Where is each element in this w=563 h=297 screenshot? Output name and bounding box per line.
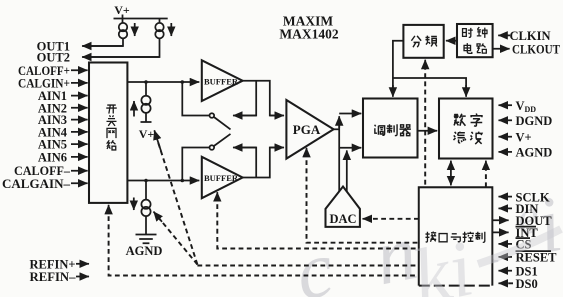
buffer U2 output wiring (243, 148, 277, 178)
clock box 时钟电路 (457, 24, 493, 57)
wire to switch top (182, 82, 209, 116)
svg-text:CLKOUT: CLKOUT (512, 43, 561, 57)
pin AIN3 (71, 119, 88, 121)
svg-text:REFIN–: REFIN– (30, 270, 77, 284)
svg-text:AIN6: AIN6 (38, 150, 67, 164)
pin VDD (499, 104, 513, 106)
svg-text:V+: V+ (139, 127, 155, 141)
wire clock to divider (446, 40, 457, 42)
pin AIN6 (71, 156, 88, 158)
dashed control rail mid (197, 265, 418, 267)
pin AIN4 (71, 131, 88, 133)
wire stub to bias current source (145, 82, 147, 96)
dashed clock feedback up into divider (424, 65, 426, 187)
svg-text:AGND: AGND (126, 244, 163, 258)
wire to switch bottom (182, 148, 209, 181)
current source I3 (V+ bias) (141, 96, 150, 113)
node A junction top wire / bias source (144, 80, 148, 84)
svg-text:V+: V+ (516, 130, 532, 144)
interface pins (492, 190, 557, 291)
svg-text:DAC: DAC (329, 212, 356, 226)
pin CS (499, 243, 513, 245)
wire to ground (145, 216, 147, 234)
pin AIN1 (71, 95, 88, 97)
current source I2 (155, 23, 163, 39)
current source I4 (AGND sink) (141, 200, 150, 217)
V+ rail wire (114, 15, 168, 23)
current source I1 (burnout detect) (119, 23, 127, 39)
node D junction bottom wire / chopper branch (181, 179, 185, 183)
switch arm top (214, 117, 231, 129)
pin RESET (499, 256, 513, 258)
svg-text:CALGAIN–: CALGAIN– (2, 177, 71, 191)
wire modulator to filter (418, 130, 438, 132)
label 调制器 (375, 125, 385, 135)
svg-text:BUFFER: BUFFER (204, 174, 239, 183)
pin CLKIN (498, 34, 510, 36)
pin V+ (499, 136, 513, 138)
label 开关网络 vertical (106, 105, 117, 114)
node B junction top wire / chopper branch (181, 80, 185, 84)
pin CALOFF+ (71, 69, 88, 71)
arrow up beside source (133, 101, 135, 117)
watermark cnki (289, 180, 563, 297)
divider to modulator wire (393, 41, 404, 95)
svg-text:AGND: AGND (516, 146, 553, 160)
wire box to bottom buffer (127, 180, 199, 182)
dashed control to DAC (369, 218, 419, 220)
wire box to top buffer (127, 81, 199, 83)
pin CALGIN+ (71, 82, 88, 84)
svg-text:MAX1402: MAX1402 (279, 27, 338, 42)
buffer U1 output wiring (243, 81, 277, 116)
dashed control rail from buffer U2 (217, 196, 418, 249)
branch to filter top (393, 78, 466, 90)
summing vertical right (to DAC) (346, 150, 348, 192)
wire OUT1 (83, 38, 123, 46)
svg-text:OUT2: OUT2 (37, 51, 70, 65)
filter-interface double arrow (450, 164, 452, 182)
switch network box (89, 63, 127, 203)
pin REFIN+ (76, 263, 89, 265)
buffer U2 bottom (202, 157, 243, 198)
svg-text:DS0: DS0 (516, 277, 538, 291)
PGA amp (286, 100, 333, 159)
DAC (326, 187, 360, 227)
pin SCLK (499, 196, 513, 198)
arrow I2 down (170, 23, 172, 36)
pin CALOFF- (71, 170, 88, 172)
ground AGND symbol (136, 235, 157, 244)
dashed control rail from switch network (109, 208, 419, 276)
digital filter box (439, 99, 493, 159)
arrow I1 down (134, 23, 136, 36)
pin REFIN- (76, 276, 89, 278)
dashed control rail from PGA (307, 152, 419, 243)
pin DS0 (503, 282, 513, 284)
svg-text:PGA: PGA (293, 122, 321, 137)
divider box 分频 (403, 25, 443, 58)
svg-text:DGND: DGND (516, 114, 553, 128)
watermark overlay ki (405, 225, 561, 297)
dashed filter-interface line (485, 166, 487, 187)
node C junction bottom wire / bias source (144, 179, 148, 183)
label 数字滤波 (454, 114, 466, 126)
wire to modulator bottom input (339, 147, 361, 149)
PGA output stub (334, 128, 340, 130)
svg-text:RESET: RESET (516, 251, 558, 265)
svg-text:BUFFER: BUFFER (204, 77, 239, 86)
input pins left (2, 64, 88, 191)
arrow down beside source (133, 198, 135, 211)
pin CLKOUT (493, 48, 510, 50)
interface box bottom edge (broken in scan) (419, 285, 493, 287)
svg-text:CLKIN: CLKIN (510, 29, 551, 43)
switch contact bottom (210, 145, 215, 150)
filter pins right (499, 99, 553, 160)
switch contact top (210, 113, 215, 118)
label 接口与控制 (425, 232, 436, 243)
pin DS1 (499, 270, 513, 272)
V+ terminal under source (141, 113, 152, 122)
wire OUT2 (83, 38, 160, 57)
summing vertical left (to DAC) (338, 118, 340, 193)
pin INT (492, 231, 508, 233)
dashed callout to V+ node (158, 142, 197, 265)
pin DGND (499, 119, 513, 121)
pin AIN2 (71, 107, 88, 109)
pin CALGAIN- (71, 182, 88, 184)
wire stub to sink current source (145, 181, 147, 200)
switch arm bottom (214, 134, 231, 146)
buffer U1 top (202, 60, 243, 101)
interface & control box (419, 187, 493, 285)
modulator box (363, 99, 418, 158)
pin AIN5 (71, 143, 88, 145)
dashed callout to AGND source (158, 217, 197, 265)
pin DIN (499, 207, 513, 209)
wire to modulator top input (339, 113, 361, 115)
pin AGND2 (499, 151, 513, 153)
pin DOUT (492, 219, 508, 221)
